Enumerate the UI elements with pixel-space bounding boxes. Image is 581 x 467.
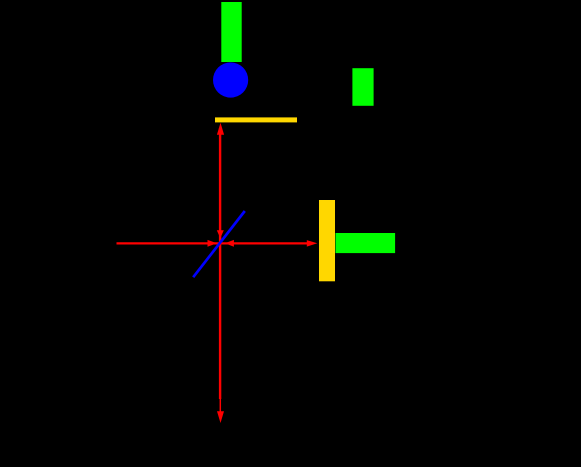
lens (blue circle) — [213, 62, 248, 97]
reference block (green rectangle, top right) — [352, 68, 373, 106]
beam splitter (blue diagonal line) — [193, 211, 245, 277]
arrowhead down at bottom — [217, 411, 224, 423]
arrowhead down above center — [217, 230, 224, 238]
arrowhead up at mirror M1 — [217, 123, 224, 135]
beam path horizontal (red line) — [117, 242, 311, 244]
detector (green rectangle, right of M2) — [336, 233, 396, 253]
beam path vertical thin lower segment — [219, 397, 221, 414]
laser source (green rectangle, top) — [221, 2, 241, 62]
beam path vertical (red line) — [219, 128, 221, 399]
mirror M2 (right vertical gold bar) — [319, 200, 335, 281]
arrowhead right, left of center — [208, 240, 217, 247]
arrowhead left, right of center — [225, 240, 234, 247]
mirror M1 (top horizontal gold bar) — [215, 117, 297, 122]
arrowhead right at mirror M2 — [307, 240, 318, 247]
